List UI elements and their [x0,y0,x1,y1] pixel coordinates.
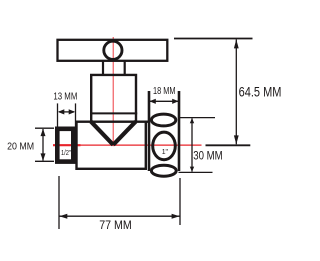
svg-text:1/2": 1/2" [61,150,71,157]
svg-text:30 MM: 30 MM [193,149,222,163]
svg-text:77 MM: 77 MM [99,218,132,232]
svg-text:20 MM: 20 MM [7,140,34,152]
svg-text:18 MM: 18 MM [153,86,176,97]
svg-text:13 MM: 13 MM [53,91,77,102]
svg-text:64.5 MM: 64.5 MM [239,85,282,100]
svg-text:1": 1" [162,147,169,156]
